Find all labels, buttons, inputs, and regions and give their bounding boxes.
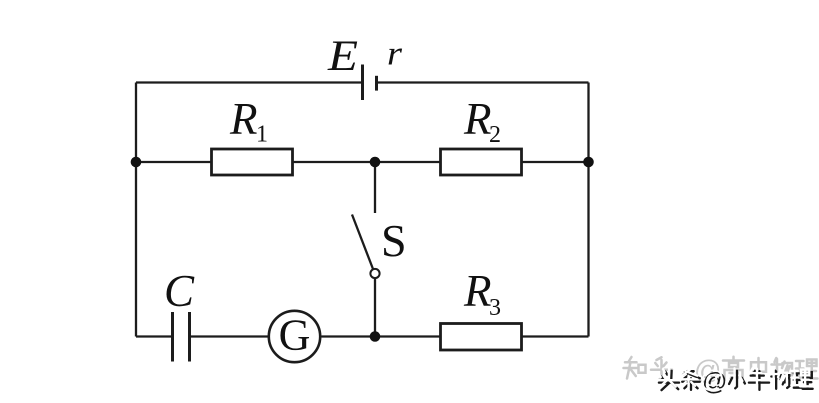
svg-text:C: C: [164, 266, 195, 316]
svg-text:S: S: [381, 215, 407, 266]
svg-text:R: R: [463, 266, 492, 316]
svg-text:1: 1: [256, 122, 268, 148]
svg-text:E: E: [327, 33, 358, 80]
svg-text:G: G: [279, 311, 311, 360]
svg-text:@: @: [700, 366, 725, 394]
svg-text:2: 2: [489, 122, 501, 148]
svg-text:R: R: [229, 94, 258, 144]
svg-text:r: r: [387, 36, 403, 73]
svg-text:R: R: [463, 94, 492, 144]
svg-text:3: 3: [489, 295, 501, 321]
